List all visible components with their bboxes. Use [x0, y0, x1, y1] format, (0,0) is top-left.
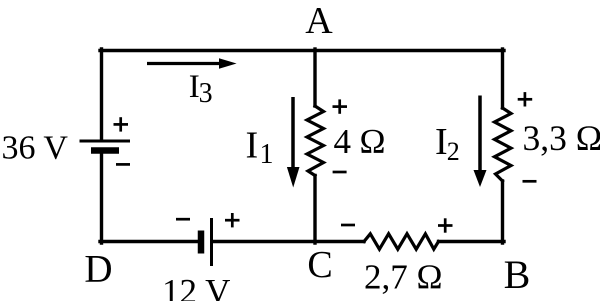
wire left upper: [100, 49, 103, 140]
current arrow I3: [147, 58, 237, 69]
svg-text:A: A: [305, 0, 333, 42]
battery V2 12V long thin plate: [210, 218, 213, 266]
svg-text:I: I: [246, 125, 259, 167]
svg-text:12 V: 12 V: [162, 272, 230, 301]
svg-text:3,3 Ω: 3,3 Ω: [523, 118, 600, 158]
polarity minus V1: [116, 163, 130, 166]
battery V1 36V short thick plate: [91, 147, 119, 154]
wire bottom resistor-to-B: [439, 240, 505, 243]
svg-text:B: B: [504, 252, 531, 297]
current arrow I2: [474, 96, 487, 188]
resistor R1 4 ohm zigzag: [307, 106, 324, 176]
wire right lower: [501, 181, 504, 243]
svg-text:3: 3: [199, 78, 213, 109]
battery V1 36V long plate: [80, 140, 131, 143]
polarity plus V2: [225, 213, 240, 227]
polarity minus R1: [333, 171, 347, 174]
resistor R2 3.3 ohm zigzag: [495, 108, 512, 181]
svg-text:2: 2: [447, 137, 460, 166]
wire right upper: [501, 49, 504, 108]
wire left lower: [100, 151, 103, 243]
svg-text:C: C: [307, 244, 332, 286]
svg-text:Ω: Ω: [360, 122, 386, 161]
battery V2 12V short thick plate: [198, 231, 205, 254]
wire middle upper: [313, 49, 316, 106]
current arrow I1: [287, 97, 300, 188]
svg-text:4: 4: [334, 122, 352, 161]
polarity minus R3: [341, 224, 355, 227]
wire bottom battery-to-resistor: [214, 240, 365, 243]
wire bottom D-to-battery: [100, 240, 198, 243]
resistor R3 2.7 ohm zigzag: [364, 234, 439, 249]
polarity plus R2: [518, 92, 533, 106]
svg-text:36 V: 36 V: [2, 130, 69, 167]
polarity plus V1: [114, 117, 129, 131]
svg-text:1: 1: [260, 139, 274, 170]
wire top A-row: [100, 49, 504, 52]
polarity plus R3: [438, 218, 453, 232]
wire middle lower: [313, 176, 316, 244]
polarity minus R2: [523, 180, 537, 183]
svg-text:D: D: [84, 248, 112, 291]
polarity minus V2: [176, 218, 190, 221]
svg-text:I: I: [435, 121, 448, 163]
svg-text:2,7 Ω: 2,7 Ω: [364, 258, 443, 297]
polarity plus R1: [333, 99, 348, 113]
